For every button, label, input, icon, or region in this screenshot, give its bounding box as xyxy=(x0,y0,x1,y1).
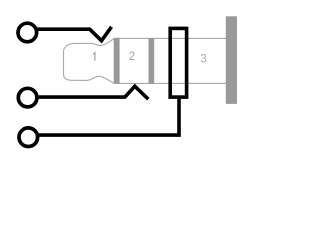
svg-text:2: 2 xyxy=(129,51,135,63)
svg-text:3: 3 xyxy=(200,54,206,66)
